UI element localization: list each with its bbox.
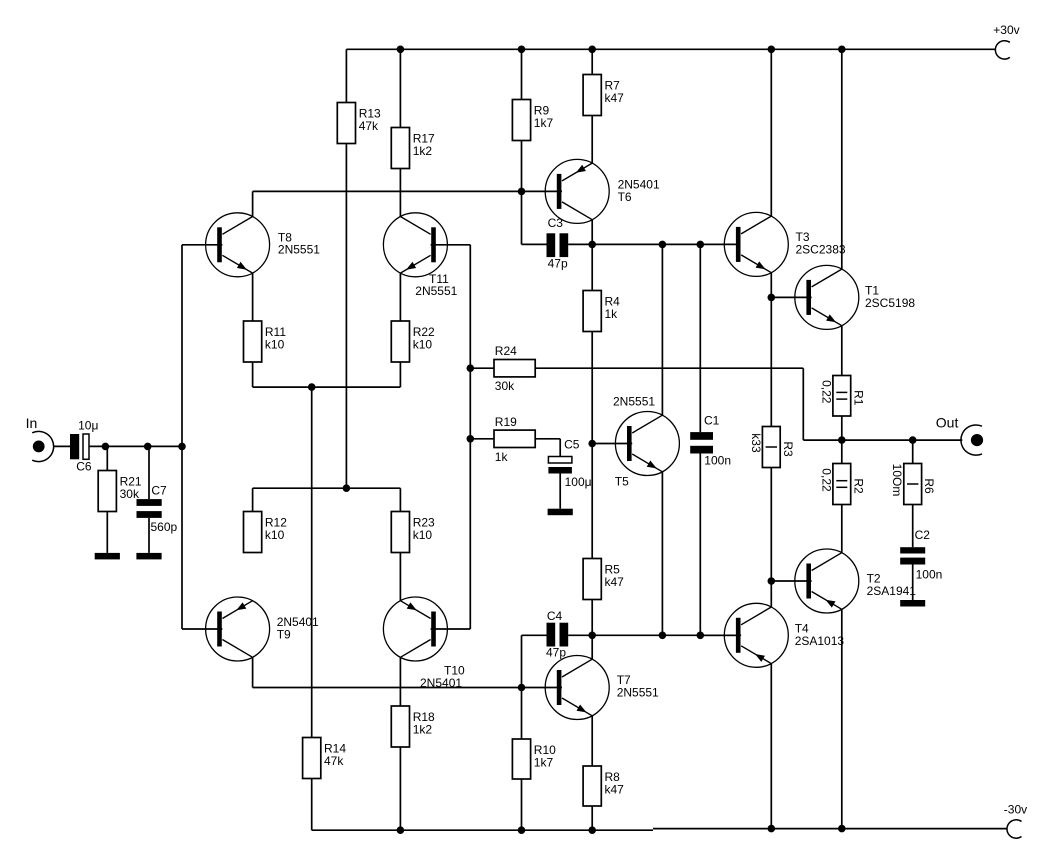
svg-text:2SA1941: 2SA1941 (867, 584, 917, 598)
node junction (518, 684, 526, 692)
capacitor C5 100u (548, 437, 591, 489)
resistor R5 k47 (583, 559, 624, 600)
wire R13 column (345, 144, 347, 489)
wire R1 to out (841, 416, 843, 440)
wire R19 left (470, 438, 494, 440)
svg-text:T5: T5 (615, 475, 629, 489)
svg-text:47p: 47p (546, 645, 566, 659)
ground (95, 553, 120, 560)
node junction (588, 241, 596, 249)
wire T5 emitter to C4 line (661, 472, 663, 636)
svg-text:47p: 47p (548, 257, 568, 271)
capacitor C4 47p (546, 609, 568, 660)
capacitor C6 10u (70, 419, 98, 474)
wire C7 top (148, 446, 150, 499)
wire R23 top (399, 488, 401, 511)
svg-text:k33: k33 (749, 433, 763, 453)
wire T1 base (771, 296, 811, 298)
wire R2 to T2 emitter (841, 505, 843, 553)
svg-text:k10: k10 (413, 338, 433, 352)
wire C4 right lead (568, 634, 592, 636)
node junction (588, 46, 596, 54)
svg-text:C7: C7 (151, 483, 167, 497)
wire T7 emitter to R8 (591, 716, 593, 766)
wire T10 base (431, 628, 471, 630)
node junction (518, 46, 526, 54)
svg-text:47k: 47k (359, 119, 379, 133)
node junction (518, 188, 526, 196)
svg-text:+30v: +30v (993, 23, 1019, 37)
node junction (588, 632, 596, 640)
node junction (588, 440, 596, 448)
wire R6 to C2 (912, 505, 914, 548)
resistor R14 47k (303, 738, 347, 779)
resistor R24 30k (494, 344, 535, 393)
node junction (467, 364, 475, 372)
svg-text:C5: C5 (564, 437, 580, 451)
wire C3 left lead (522, 243, 547, 245)
svg-text:1k2: 1k2 (413, 723, 433, 737)
svg-text:2N5401: 2N5401 (420, 676, 462, 690)
wire R17 to T11 collector (399, 169, 401, 217)
resistor R11 k10 (244, 321, 287, 362)
node junction (178, 443, 186, 451)
resistor R19 1k (494, 415, 535, 464)
wire T8 base (182, 244, 222, 246)
node junction (659, 241, 667, 249)
transistor T3 2SC2383 (724, 212, 846, 276)
node junction (343, 484, 351, 492)
resistor R13 47k (337, 103, 381, 144)
wire R4 to T5 base (591, 332, 593, 444)
wire T4 collector to rail (770, 664, 772, 829)
svg-text:0,22: 0,22 (819, 468, 833, 492)
transistor T8 2N5551 (206, 213, 321, 277)
wire R3 to T4 emitter (770, 468, 772, 608)
node junction (697, 241, 705, 249)
svg-text:100n: 100n (704, 454, 731, 468)
wire C3 left corner (521, 191, 523, 244)
svg-text:0,22: 0,22 (819, 380, 833, 404)
svg-text:R24: R24 (495, 344, 517, 358)
wire R23 to T10 emitter (399, 553, 401, 601)
capacitor C2 100n (900, 528, 942, 581)
wire C1 top (699, 244, 701, 432)
wire C3 right lead (568, 243, 592, 245)
connector +30v (993, 23, 1019, 59)
node junction (768, 825, 776, 833)
wire C7 to ground (148, 518, 150, 553)
-30v rail wire left (312, 829, 653, 831)
node junction (144, 443, 152, 451)
resistor R3 k33 (749, 427, 795, 468)
wire R12 top (252, 488, 254, 511)
node junction (588, 826, 596, 834)
transistor T5 2N5551 (613, 394, 679, 488)
wire R13 to rail (345, 49, 347, 102)
svg-text:R3: R3 (781, 441, 795, 457)
ground (548, 509, 573, 516)
wire T3 emitter to R3 (770, 273, 772, 427)
wire T8 emitter (252, 273, 254, 321)
wire T2 collector to rail (841, 609, 843, 828)
wire R9 to T6 base line (521, 141, 523, 192)
node junction (397, 46, 405, 54)
transistor T1 2SC5198 (795, 265, 916, 329)
wire R11-R22 link (253, 386, 401, 388)
node junction (768, 46, 776, 54)
resistor R1 0,22 (819, 376, 865, 417)
wire C6 to input node (89, 445, 182, 447)
resistor R7 k47 (583, 75, 624, 116)
svg-text:R19: R19 (495, 415, 517, 429)
node junction (768, 294, 776, 302)
svg-text:2N5551: 2N5551 (278, 243, 320, 257)
wire C3 to T5 collector (661, 244, 663, 415)
wire C4 corner down (521, 635, 523, 687)
wire T8 collector (252, 191, 254, 216)
node junction (838, 436, 846, 444)
svg-text:C2: C2 (915, 528, 931, 542)
wire R8 to rail (591, 806, 593, 830)
svg-text:R6: R6 (922, 478, 936, 494)
svg-text:2N5551: 2N5551 (415, 284, 457, 298)
wire R14 to rail (311, 779, 313, 831)
svg-text:2SA1013: 2SA1013 (795, 634, 845, 648)
svg-text:C1: C1 (704, 414, 720, 428)
svg-text:C6: C6 (76, 459, 92, 473)
resistor R4 1k (583, 291, 620, 332)
wire T11 base (431, 244, 471, 246)
node junction (909, 436, 917, 444)
svg-text:k10: k10 (413, 528, 433, 542)
svg-text:k47: k47 (605, 575, 625, 589)
wire R5 to C4 node (591, 600, 593, 636)
wire C3 line (592, 243, 736, 245)
resistor R10 1k7 (512, 739, 556, 779)
svg-text:T6: T6 (618, 190, 632, 204)
transistor T6 2N5401 (545, 159, 660, 223)
node junction (397, 826, 405, 834)
wire T10 collector to R18 (399, 657, 401, 706)
svg-text:R1: R1 (851, 390, 865, 406)
resistor R21 30k (98, 471, 142, 512)
svg-text:10Om: 10Om (890, 464, 904, 497)
+30v rail wire (346, 48, 995, 50)
transistor T9 2N5401 (206, 597, 319, 661)
wire R21 to ground (106, 512, 108, 553)
resistor R12 k10 (244, 512, 288, 553)
wire T9 collector (252, 657, 254, 687)
svg-text:2SC2383: 2SC2383 (796, 243, 846, 257)
wire C1 bottom (699, 454, 701, 636)
wire C4 line (592, 634, 736, 636)
connector -30v (1004, 803, 1027, 839)
ground (900, 600, 925, 607)
wire T5 base to R5 (591, 444, 593, 559)
wire T2 base (771, 580, 811, 582)
transistor T10 2N5401 (383, 597, 465, 690)
wire T9 collector to T7 base (253, 687, 562, 689)
node junction (838, 46, 846, 54)
node junction (308, 383, 316, 391)
node junction (518, 826, 526, 834)
wire T1 emitter to R1 (841, 326, 843, 376)
svg-text:2N5551: 2N5551 (613, 394, 655, 408)
capacitor C3 47p (547, 216, 569, 270)
resistor R17 1k2 (391, 128, 435, 169)
resistor R9 1k7 (512, 100, 553, 141)
wire rail to T3 collector (770, 49, 772, 216)
wire R19 right (535, 438, 560, 440)
wire R24 left (470, 367, 494, 369)
wire R18 to rail (399, 747, 401, 830)
svg-text:100μ: 100μ (565, 475, 592, 489)
wire output line (803, 439, 962, 441)
node junction (102, 443, 110, 451)
svg-text:-30v: -30v (1004, 803, 1027, 817)
wire rail to R17 (399, 49, 401, 127)
svg-text:560p: 560p (151, 520, 178, 534)
svg-text:1k7: 1k7 (534, 756, 554, 770)
wire T8 collector to T6 base (253, 190, 562, 192)
wire out to R2 (841, 440, 843, 463)
svg-text:k10: k10 (265, 528, 285, 542)
ground (136, 553, 161, 560)
wire In to C6 (54, 445, 70, 447)
wire base column (469, 245, 471, 629)
wire R12-R23 link (253, 487, 401, 489)
svg-text:100n: 100n (916, 567, 943, 581)
wire rail to R9 (521, 49, 523, 99)
wire T7 collector (591, 635, 593, 659)
node junction (467, 435, 475, 443)
transistor T11 2N5551 (383, 213, 457, 298)
wire R21 top (106, 446, 108, 470)
wire rail to T1 collector (841, 49, 843, 269)
wire R7 to T6 emitter (591, 116, 593, 164)
wire R10 top (521, 688, 523, 740)
node junction (697, 632, 705, 640)
wire C4 left lead (522, 634, 547, 636)
connector Out (936, 415, 983, 456)
wire C2 to ground (912, 565, 914, 601)
wire R14 column (311, 387, 313, 737)
svg-text:2N5551: 2N5551 (617, 686, 659, 700)
svg-text:10μ: 10μ (78, 419, 98, 433)
wire T5 base (592, 443, 632, 445)
svg-text:Out: Out (936, 415, 959, 431)
wire T4 base (700, 634, 741, 636)
wire feedback corner down (802, 368, 804, 440)
-30v rail wire right (653, 828, 1007, 830)
wire R10 to rail (521, 779, 523, 830)
svg-text:T9: T9 (277, 627, 291, 641)
transistor T7 2N5551 (545, 656, 659, 720)
svg-text:1k2: 1k2 (413, 144, 433, 158)
transistor T4 2SA1013 (724, 603, 844, 667)
svg-text:1k: 1k (495, 450, 509, 464)
svg-text:C4: C4 (547, 609, 563, 623)
svg-text:k47: k47 (605, 783, 625, 797)
capacitor C1 100n (690, 414, 731, 468)
svg-text:k47: k47 (605, 91, 625, 105)
wire R24 right to corner (535, 367, 803, 369)
svg-text:1k: 1k (605, 307, 619, 321)
wire C5 to ground (559, 474, 561, 509)
capacitor C7 560p (137, 483, 178, 534)
node junction (659, 632, 667, 640)
wire R4 top (591, 244, 593, 290)
svg-text:2SC5198: 2SC5198 (865, 296, 915, 310)
connector In (26, 415, 54, 462)
wire R22 bottom (399, 362, 401, 387)
svg-text:1k7: 1k7 (534, 116, 554, 130)
resistor R18 1k2 (391, 706, 435, 747)
resistor R22 k10 (391, 321, 435, 362)
resistor R6 10Om (890, 464, 936, 505)
wire R19 corner to C5 (559, 439, 561, 457)
transistor T2 2SA1941 (795, 549, 917, 613)
wire T11 emitter to R22 (399, 273, 401, 321)
resistor R2 0,22 (819, 464, 865, 505)
svg-text:In: In (26, 415, 38, 431)
svg-text:47k: 47k (324, 754, 344, 768)
node junction (838, 825, 846, 833)
node junction (768, 577, 776, 585)
wire T6 collector (591, 220, 593, 245)
svg-text:k10: k10 (265, 338, 285, 352)
wire rail to R7 (591, 49, 593, 74)
resistor R23 k10 (391, 512, 435, 553)
svg-text:R2: R2 (851, 478, 865, 494)
wire R11 bottom (252, 362, 254, 387)
wire out to R6 (912, 440, 914, 463)
wire input vertical (181, 245, 183, 629)
svg-text:30k: 30k (495, 379, 515, 393)
wire T9 base (182, 628, 222, 630)
resistor R8 k47 (583, 766, 624, 806)
